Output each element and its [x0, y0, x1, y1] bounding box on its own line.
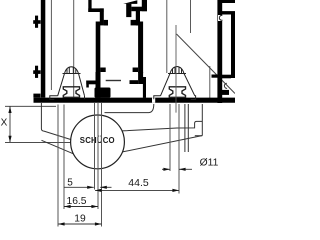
svg-text:5: 5 — [67, 178, 73, 189]
left frame clamp bracket lower — [33, 66, 40, 78]
wire thin vertical line far right — [209, 66, 211, 98]
drill hole line left — [94, 103, 96, 190]
glazing block right — [154, 67, 196, 100]
glazing block left — [50, 67, 85, 100]
dimension 16.5 line — [64, 205, 98, 208]
mullion web right bar — [123, 0, 147, 73]
left frame clamp bracket upper — [33, 16, 40, 28]
svg-text:X: X — [1, 117, 8, 128]
svg-text:SCHÜCO: SCHÜCO — [80, 136, 115, 145]
mullion web left bar — [88, 0, 108, 73]
node band white notch — [152, 98, 155, 103]
glazing deck line — [106, 80, 121, 82]
right frame profile top — [217, 0, 235, 103]
left frame profile foot — [33, 94, 40, 98]
connector seam line — [5, 141, 80, 143]
screw hole line left outer — [57, 105, 59, 227]
wire thin vertical glass line left2 — [73, 0, 75, 97]
drill hole line mid — [97, 103, 99, 209]
transom bottom band — [34, 98, 236, 103]
svg-text:16.5: 16.5 — [66, 196, 86, 207]
svg-text:44.5: 44.5 — [128, 177, 149, 189]
dimension X witness top — [5, 105, 56, 107]
mullion web right lower stem — [130, 72, 147, 98]
drill hole line right — [101, 103, 103, 227]
connector right wing outline — [105, 104, 203, 152]
hole lines right pair — [169, 104, 171, 171]
glazing block right axis — [175, 25, 177, 113]
node section diagonal line — [177, 34, 236, 94]
dimension d11 line — [162, 168, 192, 171]
dimension 19 line — [58, 214, 102, 226]
dimension 5 line — [64, 186, 112, 189]
dimension 44.5 line — [95, 189, 179, 192]
svg-text:19: 19 — [74, 214, 86, 225]
wire thin vertical glass line right1 — [166, 0, 168, 73]
left frame profile main bar — [41, 0, 46, 98]
dimension X line — [8, 106, 11, 142]
wire thin vertical glass line right2 — [190, 0, 192, 33]
schueco logo text — [79, 137, 117, 145]
svg-text:Ø11: Ø11 — [200, 158, 219, 169]
mullion web left lower stem — [86, 72, 110, 98]
wire thin vertical glass line left — [50, 0, 52, 90]
connector left wing outline — [41, 103, 73, 154]
screw hole line left inner — [63, 105, 65, 210]
right frame profile lower hook — [212, 75, 232, 95]
detail circle bubble — [71, 115, 125, 169]
